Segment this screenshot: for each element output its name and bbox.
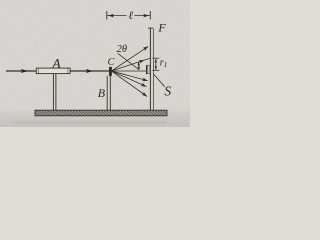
svg-text:C: C [108, 57, 115, 68]
ray 6 (lowest) [112, 71, 148, 97]
leader from label S to screen spot [153, 74, 164, 87]
wire: incoming beam line left [6, 70, 38, 72]
ray 3 axis to trap [112, 70, 147, 72]
ring radius ticks on screen [152, 57, 159, 59]
arrowhead on incoming beam [19, 70, 28, 72]
stand post B under target C [106, 76, 108, 111]
beam trap block at screen [146, 65, 150, 73]
stand post under tube A [52, 74, 54, 111]
svg-text:F: F [157, 21, 166, 35]
screen F plate right face [153, 28, 155, 110]
dimension l: end ticks [106, 11, 108, 20]
ray 2 (first ring ray), reaches screen [112, 60, 145, 71]
leader from 2-theta label [118, 53, 139, 69]
svg-text:B: B [98, 86, 106, 100]
r1 double arrow [155, 61, 157, 68]
ray 4 [112, 71, 148, 81]
arrowhead on beam to C [84, 70, 93, 72]
svg-text:ℓ: ℓ [128, 10, 133, 22]
wire: beam line from tube to target C [70, 70, 110, 72]
svg-text:2θ: 2θ [117, 44, 127, 55]
tube A body [36, 68, 70, 74]
target C bar [109, 67, 111, 75]
angle 2-theta marker (double arrow between ring ray and axis) [138, 63, 140, 68]
paper background [0, 0, 190, 127]
screen F plate left face [149, 28, 151, 110]
base bed (hatched) [35, 110, 167, 116]
dimension l: arrowheads [109, 15, 115, 17]
screen top lip [148, 27, 153, 29]
dimension l: line segments [107, 15, 127, 17]
svg-text:S: S [164, 84, 171, 99]
ray 5 [112, 71, 147, 87]
ray 1 (upper diffracted, above ring ray) [112, 46, 149, 71]
svg-text:A: A [51, 56, 61, 71]
